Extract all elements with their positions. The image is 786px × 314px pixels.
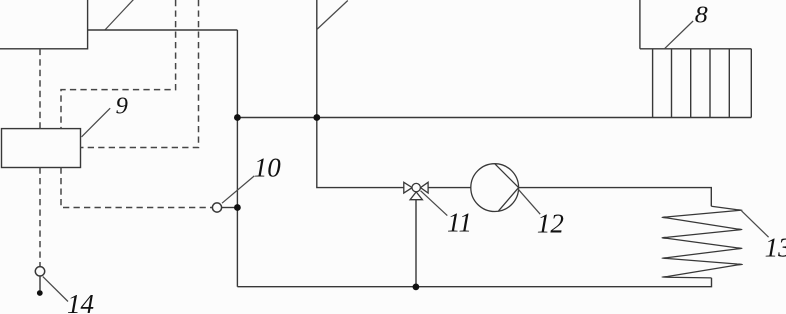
leader 10 (222, 176, 254, 203)
supply pipe from boiler to left riser (88, 29, 238, 31)
svg-text:8: 8 (695, 2, 708, 28)
pump 12 body circle (471, 164, 519, 212)
dashed control line: controller to sensor 14 (39, 168, 41, 267)
junction dot hot riser / return pipe (313, 114, 320, 121)
valve 11 plug circle (412, 183, 420, 191)
leader 12 (517, 188, 540, 214)
valve 11 right port triangle (421, 182, 429, 193)
node 10 link wire (222, 207, 236, 209)
svg-text:13: 13 (765, 232, 786, 262)
junction dot valve drop / bottom pipe (413, 284, 420, 291)
radiator supply drop (639, 0, 641, 49)
svg-text:11: 11 (447, 207, 472, 237)
leader 9 (82, 108, 111, 137)
valve 11 bottom port triangle (410, 192, 422, 200)
radiator 8 (640, 49, 751, 118)
sensor 14 stem (39, 276, 41, 290)
coil 13 (662, 206, 743, 278)
left riser pipe (236, 30, 238, 287)
leader 13 (742, 211, 769, 237)
leader to cropped label above hot riser (317, 1, 348, 30)
dashed control line: top left loop (61, 0, 176, 129)
pump 12 impeller chords (495, 164, 519, 211)
sensor 14 circle (35, 267, 44, 276)
pump 12 (471, 164, 519, 212)
sensor 14 dot (37, 290, 43, 296)
return pipe under radiator (237, 117, 751, 119)
hot riser and pump-branch pipe (317, 0, 404, 188)
node 10 sensor circle (212, 203, 221, 212)
leader to cropped label above boiler (105, 0, 134, 30)
svg-text:12: 12 (537, 208, 564, 238)
valve drop pipe (415, 200, 417, 287)
leader 14 (43, 277, 68, 302)
svg-text:10: 10 (254, 152, 281, 182)
bottom pipe (237, 278, 711, 287)
pipe pump to coil riser (519, 188, 712, 207)
dashed control line: top right to controller side (81, 0, 199, 148)
three-way valve 11 (404, 182, 428, 199)
dashed control line: controller to node 10 (61, 168, 212, 208)
controller box 9 (2, 129, 81, 168)
pipe valve to pump (428, 187, 471, 189)
boiler box (top-left, cropped) (0, 0, 88, 49)
svg-text:14: 14 (67, 289, 94, 314)
dashed control line: boiler to controller (39, 49, 41, 129)
valve 11 left port triangle (404, 182, 412, 193)
junction dot left riser / return pipe (234, 114, 241, 121)
leader 8 (664, 21, 693, 49)
svg-text:9: 9 (116, 93, 128, 119)
leader 11 (421, 191, 448, 216)
junction dot node 10 on left riser (234, 204, 241, 211)
